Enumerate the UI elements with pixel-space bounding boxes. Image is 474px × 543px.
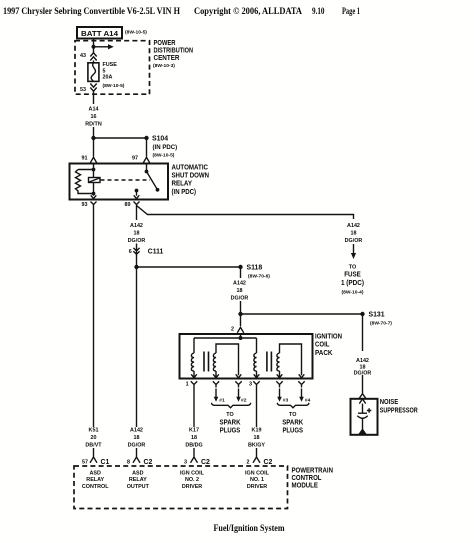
svg-text:#2: #2 xyxy=(241,397,247,403)
svg-text:CONTROL: CONTROL xyxy=(82,484,109,490)
svg-text:S104: S104 xyxy=(152,136,168,143)
svg-text:SUPPRESSOR: SUPPRESSOR xyxy=(380,408,418,415)
svg-text:(8W-70-6): (8W-70-6) xyxy=(248,274,270,280)
svg-text:8: 8 xyxy=(127,460,130,466)
svg-text:K19: K19 xyxy=(252,428,262,434)
svg-text:18: 18 xyxy=(191,435,197,441)
svg-text:ASD: ASD xyxy=(132,470,143,476)
svg-text:DRIVER: DRIVER xyxy=(247,484,267,490)
svg-text:(8W-10-5): (8W-10-5) xyxy=(103,83,125,89)
svg-text:2: 2 xyxy=(231,327,234,333)
svg-text:Page 1: Page 1 xyxy=(342,6,360,16)
svg-text:BK/GY: BK/GY xyxy=(248,443,265,449)
svg-text:A142: A142 xyxy=(347,223,360,229)
svg-text:PLUGS: PLUGS xyxy=(220,428,241,435)
svg-text:A142: A142 xyxy=(233,281,246,287)
svg-text:18: 18 xyxy=(134,231,140,237)
svg-text:#4: #4 xyxy=(305,397,311,403)
svg-text:(8W-70-7): (8W-70-7) xyxy=(370,321,392,327)
svg-text:TO: TO xyxy=(289,412,296,418)
svg-text:20: 20 xyxy=(91,435,97,441)
svg-text:6: 6 xyxy=(129,249,132,255)
svg-text:18: 18 xyxy=(134,435,140,441)
svg-text:SPARK: SPARK xyxy=(220,420,241,427)
svg-text:RELAY: RELAY xyxy=(86,477,104,483)
svg-text:C1: C1 xyxy=(101,459,110,466)
svg-text:C2: C2 xyxy=(264,459,273,466)
svg-text:DG/OR: DG/OR xyxy=(128,238,146,244)
svg-text:57: 57 xyxy=(82,460,88,466)
svg-text:#3: #3 xyxy=(283,397,289,403)
svg-text:ASD: ASD xyxy=(90,470,101,476)
svg-text:POWER: POWER xyxy=(154,40,176,47)
svg-text:DISTRIBUTION: DISTRIBUTION xyxy=(154,48,194,55)
svg-text:AUTOMATIC: AUTOMATIC xyxy=(172,164,209,171)
svg-text:16: 16 xyxy=(91,114,97,120)
svg-text:K17: K17 xyxy=(189,428,199,434)
svg-text:(IN PDC): (IN PDC) xyxy=(172,189,197,196)
svg-text:RELAY: RELAY xyxy=(172,181,193,188)
svg-text:18: 18 xyxy=(360,364,366,370)
svg-text:3: 3 xyxy=(249,382,252,388)
svg-text:1 (PDC): 1 (PDC) xyxy=(341,280,364,287)
svg-text:S131: S131 xyxy=(369,312,385,319)
svg-text:MODULE: MODULE xyxy=(292,483,319,490)
svg-text:COIL: COIL xyxy=(315,342,330,349)
svg-text:POWERTRAIN: POWERTRAIN xyxy=(292,467,334,474)
svg-text:2: 2 xyxy=(247,460,250,466)
svg-text:DB/VT: DB/VT xyxy=(85,443,102,449)
svg-text:NO. 1: NO. 1 xyxy=(250,477,264,483)
svg-text:TO: TO xyxy=(349,265,356,271)
svg-text:A142: A142 xyxy=(130,223,143,229)
svg-text:DB/DG: DB/DG xyxy=(185,443,202,449)
svg-text:FUSE: FUSE xyxy=(103,62,118,68)
svg-text:91: 91 xyxy=(82,156,88,162)
svg-text:1: 1 xyxy=(186,382,189,388)
svg-text:OUTPUT: OUTPUT xyxy=(127,484,150,490)
svg-text:C2: C2 xyxy=(144,459,153,466)
svg-text:A14: A14 xyxy=(89,107,99,113)
svg-text:18: 18 xyxy=(237,288,243,294)
svg-text:1997 Chrysler Sebring Converti: 1997 Chrysler Sebring Convertible V6-2.5… xyxy=(3,6,180,16)
svg-text:RD/TN: RD/TN xyxy=(85,122,102,128)
svg-text:A142: A142 xyxy=(356,358,369,364)
svg-text:NO. 2: NO. 2 xyxy=(185,477,199,483)
svg-text:PACK: PACK xyxy=(315,350,333,357)
svg-text:9.10: 9.10 xyxy=(312,6,325,16)
svg-text:43: 43 xyxy=(80,53,86,59)
svg-text:(8W-10-3): (8W-10-3) xyxy=(153,63,175,69)
svg-text:IGN COIL: IGN COIL xyxy=(180,470,205,476)
svg-text:(8W-10-4): (8W-10-4) xyxy=(342,290,364,296)
svg-text:BATT A14: BATT A14 xyxy=(81,31,118,38)
svg-text:TO: TO xyxy=(226,412,233,418)
svg-text:SHUT DOWN: SHUT DOWN xyxy=(172,173,210,180)
svg-text:(8W-10-5): (8W-10-5) xyxy=(153,153,175,159)
svg-text:20A: 20A xyxy=(103,75,113,81)
svg-text:DRIVER: DRIVER xyxy=(182,484,202,490)
svg-text:C111: C111 xyxy=(148,249,164,256)
svg-text:NOISE: NOISE xyxy=(380,399,399,406)
svg-text:SPARK: SPARK xyxy=(282,420,303,427)
svg-text:RELAY: RELAY xyxy=(129,477,147,483)
svg-text:18: 18 xyxy=(351,231,357,237)
svg-text:Fuel/Ignition System: Fuel/Ignition System xyxy=(214,524,285,534)
svg-text:IGNITION: IGNITION xyxy=(315,333,342,340)
svg-text:93: 93 xyxy=(82,202,88,208)
svg-text:PLUGS: PLUGS xyxy=(282,428,303,435)
svg-text:89: 89 xyxy=(125,202,131,208)
svg-text:DG/OR: DG/OR xyxy=(231,296,249,302)
svg-text:DG/OR: DG/OR xyxy=(345,238,363,244)
svg-text:IGN COIL: IGN COIL xyxy=(245,470,270,476)
svg-text:CENTER: CENTER xyxy=(154,55,180,62)
svg-text:#1: #1 xyxy=(219,397,225,403)
svg-text:A142: A142 xyxy=(130,428,143,434)
svg-text:97: 97 xyxy=(132,156,138,162)
svg-text:FUSE: FUSE xyxy=(344,272,361,279)
svg-text:18: 18 xyxy=(254,435,260,441)
svg-text:53: 53 xyxy=(80,87,86,93)
svg-text:DG/OR: DG/OR xyxy=(128,443,146,449)
svg-text:(IN PDC): (IN PDC) xyxy=(153,144,178,151)
svg-text:CONTROL: CONTROL xyxy=(292,475,322,482)
svg-text:3: 3 xyxy=(184,460,187,466)
svg-text:(8W-10-5): (8W-10-5) xyxy=(125,30,147,36)
svg-text:C2: C2 xyxy=(201,459,210,466)
svg-text:Copyright © 2006, ALLDATA: Copyright © 2006, ALLDATA xyxy=(194,6,302,16)
svg-text:S118: S118 xyxy=(247,265,263,272)
svg-text:K51: K51 xyxy=(89,428,99,434)
